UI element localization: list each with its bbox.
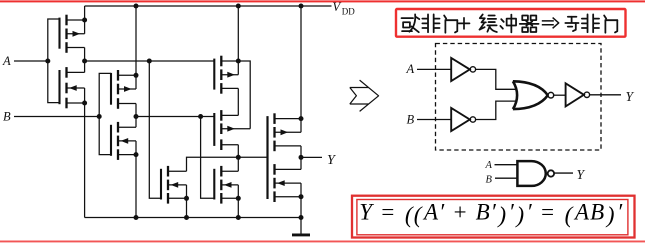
page top red rule [0, 0, 645, 2]
svg-text:DD: DD [342, 7, 355, 17]
title char 缓 [480, 14, 497, 32]
input A wire [14, 60, 48, 62]
svg-text:A: A [2, 54, 11, 68]
VT7 gate lead from node A' [149, 61, 161, 198]
page bottom red rule [0, 241, 645, 243]
transistor VT4 (NMOS, input-B inverter) [111, 122, 136, 160]
VT8 gate lead from node B' [201, 117, 215, 199]
VT10 drain to node Y [300, 157, 302, 169]
red equation box outer [352, 196, 635, 238]
VT2 drain to node A' [84, 61, 86, 72]
svg-text:′: ′ [509, 199, 515, 224]
title char 或 [402, 14, 420, 32]
node A' wire [85, 60, 215, 62]
svg-text:A: A [406, 62, 415, 76]
transistor VT2 (NMOS, input-A inverter) [60, 67, 85, 108]
VT10 source down to VSS rail [300, 197, 302, 218]
svg-text:(: ( [565, 202, 574, 228]
VT3 source to VDD [135, 6, 137, 75]
svg-text:A′ + B′: A′ + B′ [422, 199, 497, 224]
svg-text:A: A [485, 160, 493, 171]
ground symbol [292, 233, 310, 236]
VT1 source to VDD corner [84, 6, 86, 20]
transistor VT3 (PMOS, input-B inverter) [111, 70, 136, 109]
VT3 drain to node B' [135, 104, 137, 117]
VT6 drain to NOR output node [237, 145, 239, 158]
svg-text:′: ′ [617, 199, 623, 224]
transistor VT6 (PMOS, NOR series, gate B') [214, 110, 250, 150]
node B' wire [136, 116, 214, 118]
VT1 drain to node A' [84, 48, 86, 62]
svg-text:Y =: Y = [359, 199, 403, 224]
input B wire [14, 116, 99, 118]
transistor VT8 (NMOS, NOR parallel, gate B') [214, 166, 238, 204]
gate diagram Y output wire [590, 94, 621, 96]
transistor VT7 (NMOS, NOR parallel, gate A') [161, 166, 187, 204]
ground lead [300, 218, 302, 235]
output Y wire [301, 156, 322, 158]
VT4 source down to VSS rail [135, 155, 137, 218]
VT3 gate lead from B [99, 73, 111, 116]
title char 非2 [582, 14, 599, 32]
NOR output wire to output inverter gate [238, 156, 267, 158]
red equation box inner [357, 200, 628, 235]
VT8 source down to VSS rail [237, 198, 239, 217]
VT2 source down to VSS rail [84, 103, 86, 218]
title char 非 [422, 14, 439, 32]
inverter G4 (output buffer) [566, 83, 584, 106]
svg-text:): ) [605, 202, 616, 228]
NAND output bubble [548, 170, 554, 176]
NOR gate G3 body [513, 81, 548, 109]
transistor VT10 (NMOS, output inverter) [268, 116, 302, 202]
title char 与 [565, 17, 578, 31]
svg-text:AB: AB [573, 199, 605, 224]
implication double-chevron symbol [350, 80, 379, 111]
title char 门2 [604, 15, 617, 32]
title plus sign [459, 18, 470, 29]
inverter G2 (input B) [451, 108, 470, 131]
svg-text:): ) [496, 202, 507, 228]
title double arrow [542, 18, 559, 29]
VT8 drain up to NOR output node [237, 157, 239, 171]
transistor VT5 (PMOS, NOR series, gate A') [214, 56, 238, 94]
VT9 drain to node Y [300, 146, 302, 158]
transistor VT9 (PMOS, output inverter) [268, 113, 302, 199]
inverter G1 (input A) [451, 58, 470, 81]
VT4 drain to node B' [135, 117, 137, 128]
NAND input wires [495, 164, 518, 166]
svg-text:′ =: ′ = [527, 199, 563, 224]
VDD rail [85, 5, 332, 7]
NAND output wire [554, 172, 573, 174]
VT7 drain up to NOR output wire [187, 157, 239, 171]
G1 output wire to NOR [476, 69, 518, 89]
title char 器 [520, 15, 539, 32]
gate diagram input B wire [417, 119, 451, 121]
svg-text:B: B [407, 112, 415, 126]
svg-text:): ) [514, 202, 525, 228]
VT5-VT6 series link [237, 88, 239, 115]
VT5 source to VDD [237, 6, 239, 61]
G3 output bubble [548, 92, 554, 98]
red title box [396, 9, 626, 37]
dashed boundary box of gate-level diagram [436, 44, 602, 151]
svg-text:B: B [3, 110, 11, 124]
title char 门 [444, 15, 457, 32]
VT1 gate lead from A [48, 19, 60, 61]
VT6 substrate bypass to VDD [238, 61, 250, 129]
title char 冲 [500, 15, 516, 33]
NAND gate body [517, 161, 545, 186]
VT9 source to VDD [300, 6, 302, 119]
G3 to G4 wire [554, 94, 566, 96]
VT4 gate lead from B [99, 117, 111, 155]
transistor VT1 (PMOS, input-A inverter) [60, 15, 85, 53]
VT7 source down to VSS rail [186, 198, 188, 217]
gate diagram input A wire [417, 68, 451, 70]
VSS bottom rail [85, 217, 301, 219]
G2 output wire to NOR [476, 101, 518, 119]
VT2 gate lead from A [48, 61, 60, 103]
svg-text:((: (( [405, 202, 423, 228]
svg-text:B: B [486, 175, 493, 186]
